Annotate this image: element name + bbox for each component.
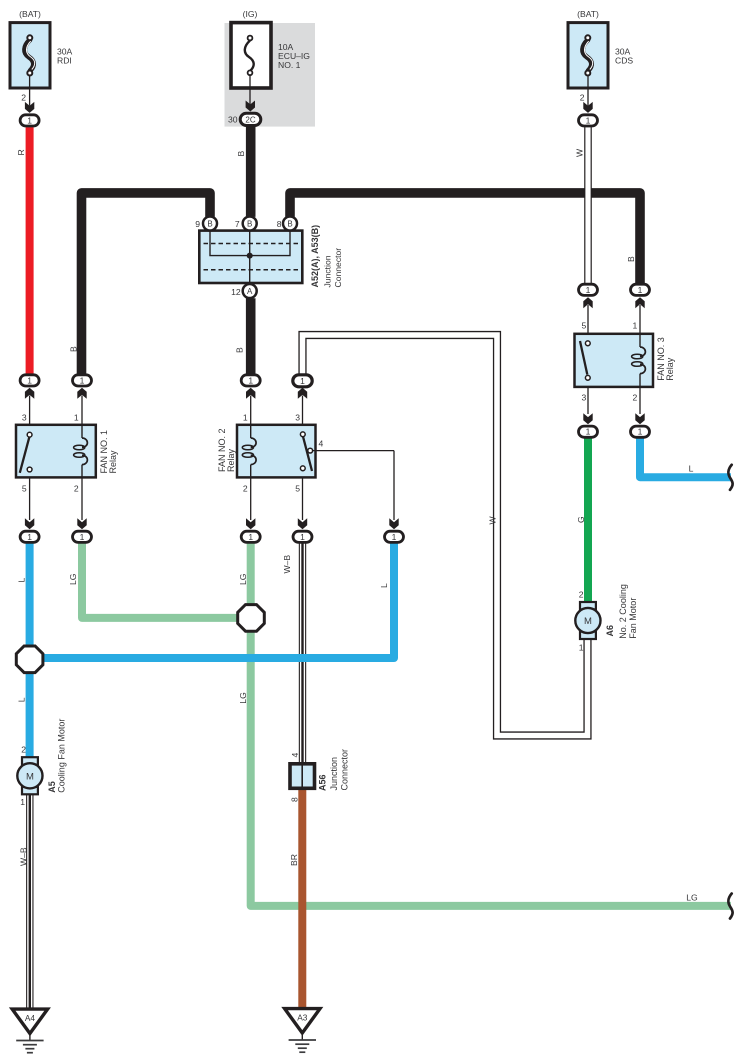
connector oval 1 below RDI fuse	[20, 115, 39, 126]
fuse element 10A ECU-IG	[245, 36, 254, 76]
svg-text:1: 1	[74, 413, 79, 423]
splice node: blue L wires junction (left)	[16, 646, 43, 673]
svg-text:B: B	[236, 151, 246, 157]
svg-text:B: B	[247, 219, 252, 228]
svg-text:2: 2	[74, 484, 79, 494]
svg-text:Relay: Relay	[108, 450, 118, 474]
svg-text:(BAT): (BAT)	[577, 9, 599, 19]
svg-text:Relay: Relay	[665, 357, 675, 381]
svg-text:W: W	[574, 148, 584, 157]
svg-text:L: L	[689, 464, 694, 474]
wire L: splice node down to cooling fan motor A5	[26, 669, 34, 758]
connector oval below relay2 pin 5	[293, 531, 312, 542]
wire B: junction pin 12(A) down to FAN NO.2 relay pin 1	[246, 298, 256, 374]
connector arrow relay1 pin1 side	[77, 388, 86, 399]
connector oval below relay2 pin 4	[385, 531, 404, 542]
svg-text:3: 3	[582, 393, 587, 403]
svg-text:Junction: Junction	[322, 255, 332, 287]
svg-text:B: B	[287, 219, 292, 228]
svg-text:A5: A5	[47, 781, 57, 793]
connector arrow into oval below relay1 pin5	[25, 518, 34, 529]
lead relay2 pin 5	[302, 477, 304, 520]
junction connector A52(A),A53(B) body	[199, 231, 302, 283]
fuse 30A RDI box	[10, 23, 50, 88]
svg-text:12: 12	[231, 287, 241, 297]
junction connector internal bus	[210, 231, 290, 283]
svg-text:(BAT): (BAT)	[19, 9, 41, 19]
lead: fuse RDI output pin 2	[29, 76, 31, 106]
connector oval above relay3 pin 1	[631, 284, 650, 295]
svg-text:A52(A), A53(B): A52(A), A53(B)	[310, 225, 320, 288]
svg-text:Connector: Connector	[333, 248, 343, 288]
svg-text:2: 2	[579, 590, 584, 600]
lead relay2 pin 3	[302, 396, 304, 425]
connector oval above relay1 pin 1	[73, 375, 92, 386]
svg-text:3: 3	[295, 413, 300, 423]
lead relay1 pin 2	[81, 477, 83, 520]
svg-text:1: 1	[392, 532, 397, 542]
wire L: FAN NO.3 relay pin 2 down and right to edge	[640, 438, 731, 478]
wire W-B: motor A5 down to ground A4	[26, 794, 33, 1010]
wire W-B: FAN NO.2 relay pin 5 down to junction connector A56	[299, 543, 306, 763]
svg-text:1: 1	[300, 376, 305, 386]
fuse 30A CDS box	[568, 23, 608, 88]
connector arrow into oval below relay3 pin3	[583, 413, 592, 424]
junction pin 12 (A)	[243, 284, 257, 298]
relay FAN NO.1 switch	[20, 432, 32, 472]
relay FAN NO.3 body	[575, 334, 654, 387]
splice node: LG wires junction (middle)	[238, 605, 265, 632]
wire LG: FAN NO.1 relay pin 2 down then right to splice node	[82, 543, 240, 618]
svg-text:1: 1	[586, 285, 591, 295]
connector oval below relay3 pin 3	[579, 426, 598, 437]
connector arrow into oval 1 (CDS)	[583, 102, 592, 113]
svg-text:2: 2	[21, 93, 26, 103]
lead relay1 pin 3	[29, 396, 31, 425]
svg-text:Cooling Fan Motor: Cooling Fan Motor	[56, 719, 66, 793]
connector arrow into oval 1 (RDI)	[25, 102, 34, 113]
wire: black bus from FAN NO.1 relay pin1 up and right to junction pin 9	[82, 193, 211, 375]
svg-text:1: 1	[248, 532, 253, 542]
svg-text:Fan Motor: Fan Motor	[628, 598, 638, 639]
connector oval below relay3 pin 2	[631, 426, 650, 437]
ground A3	[285, 1009, 320, 1053]
svg-text:7: 7	[235, 219, 240, 229]
svg-text:1: 1	[638, 427, 643, 437]
connector arrow into oval 2C	[246, 101, 255, 112]
svg-text:G: G	[576, 516, 586, 523]
lead relay2 pin 4 vertical	[393, 451, 395, 520]
wire LG: FAN NO.2 relay pin 2 down through splice, to right edge	[251, 543, 731, 906]
wire BR: junction connector A56 down to ground A3	[298, 790, 306, 1010]
connector arrow into oval below relay2 pin5	[298, 518, 307, 529]
svg-text:Junction: Junction	[329, 757, 339, 791]
svg-text:1: 1	[27, 375, 32, 385]
lead relay1 pin 1	[81, 396, 83, 425]
svg-text:1: 1	[638, 285, 643, 295]
lead: IG fuse output	[249, 76, 251, 105]
relay FAN NO.1 body	[16, 425, 96, 478]
svg-text:A3: A3	[297, 1013, 308, 1023]
svg-text:LG: LG	[238, 573, 248, 585]
svg-text:2: 2	[243, 484, 248, 494]
wire G: FAN NO.3 relay pin 3 down to No.2 cooling fan motor A6	[584, 438, 592, 603]
svg-text:1: 1	[586, 115, 591, 125]
connector arrow into oval below relay2 pin4	[389, 518, 398, 529]
wire: black bus from junction pin 8 right to FAN NO.3 relay pin 1 (B)	[290, 193, 640, 284]
svg-text:No. 2 Cooling: No. 2 Cooling	[618, 584, 628, 639]
svg-text:2: 2	[21, 745, 26, 755]
connector arrow into oval below relay2 pin2	[246, 518, 255, 529]
svg-text:2C: 2C	[245, 115, 255, 124]
wire R: RDI fuse to FAN NO.1 relay pin 3	[26, 127, 34, 374]
svg-text:LG: LG	[68, 573, 78, 585]
svg-text:1: 1	[248, 375, 253, 385]
fuse element 30A CDS	[583, 35, 593, 75]
svg-text:LG: LG	[238, 692, 248, 704]
junction internal node dot	[247, 253, 253, 259]
connector oval above relay1 pin 3	[20, 375, 39, 386]
connector arrow relay2 pin3 side	[298, 388, 307, 399]
connector oval below relay1 pin 2	[73, 531, 92, 542]
continuation squiggle LG wire	[728, 894, 732, 919]
svg-text:A6: A6	[605, 625, 615, 637]
svg-text:Relay: Relay	[226, 448, 236, 472]
junction pin 7 (B)	[243, 217, 257, 231]
svg-text:A56: A56	[317, 774, 327, 791]
lead relay2 pin 2	[250, 477, 252, 520]
svg-text:1: 1	[243, 413, 248, 423]
svg-text:1: 1	[633, 321, 638, 331]
relay FAN NO.1 coil	[74, 425, 88, 478]
svg-text:A: A	[247, 287, 253, 296]
connector arrow relay3 pin5 side	[583, 297, 592, 308]
svg-text:L: L	[16, 697, 26, 702]
svg-text:2: 2	[633, 393, 638, 403]
connector oval above relay2 pin 1	[241, 375, 260, 386]
svg-text:4: 4	[319, 438, 324, 448]
lead relay1 pin 5	[29, 477, 31, 520]
junction connector A56 body	[290, 764, 315, 789]
relay FAN NO.3 switch	[580, 341, 590, 380]
svg-text:NO. 1: NO. 1	[278, 60, 301, 70]
connector arrow into oval below relay3 pin2	[635, 413, 644, 424]
svg-text:B: B	[68, 346, 78, 352]
continuation squiggle blue L wire	[728, 465, 732, 490]
svg-text:W–B: W–B	[18, 847, 28, 866]
svg-text:L: L	[379, 583, 389, 588]
lead relay3 pin 2	[639, 387, 641, 414]
relay FAN NO.2 coil	[242, 425, 256, 478]
fuse 10A ECU-IG NO.1 box	[231, 23, 271, 88]
IG fuse gray background panel	[225, 23, 316, 127]
cooling fan motor A5	[17, 757, 42, 794]
svg-text:5: 5	[295, 484, 300, 494]
svg-text:8: 8	[289, 797, 299, 802]
lead relay2 pin 4 horizontal	[313, 450, 394, 452]
junction pin 8 (B)	[283, 217, 297, 231]
relay FAN NO.2 switch	[300, 432, 312, 471]
svg-text:1: 1	[80, 375, 85, 385]
connector oval above relay2 pin 3	[293, 375, 312, 387]
svg-text:R: R	[16, 149, 26, 155]
wire L: FAN NO.2 relay pin 4 down and left to splice node	[30, 543, 394, 658]
connector arrow into oval below relay1 pin2	[77, 518, 86, 529]
wire W: FAN NO.2 relay pin 3 up, right, down and to motor A6 low side	[303, 335, 588, 736]
svg-text:1: 1	[80, 532, 85, 542]
svg-text:LG: LG	[686, 893, 698, 903]
junction pin 9 (B)	[203, 217, 217, 231]
svg-text:W–B: W–B	[282, 555, 292, 574]
svg-text:M: M	[584, 616, 592, 627]
No.2 cooling fan motor A6	[575, 602, 600, 639]
svg-text:4: 4	[290, 753, 300, 758]
lead relay3 pin 3	[587, 387, 589, 414]
connector oval 2C	[240, 113, 261, 125]
svg-text:A4: A4	[25, 1013, 36, 1023]
svg-text:RDI: RDI	[57, 56, 72, 66]
svg-text:2: 2	[580, 93, 585, 103]
svg-text:B: B	[626, 256, 636, 262]
connector oval above relay3 pin 5	[579, 284, 598, 295]
svg-text:CDS: CDS	[615, 56, 633, 66]
svg-text:1: 1	[586, 427, 591, 437]
svg-text:1: 1	[27, 532, 32, 542]
junction connector internal dashed rows	[204, 244, 299, 270]
svg-text:(IG): (IG)	[243, 9, 258, 19]
svg-text:30: 30	[228, 115, 238, 125]
connector oval below relay1 pin 5	[20, 531, 39, 542]
relay FAN NO.2 body	[237, 425, 316, 478]
svg-text:L: L	[16, 578, 26, 583]
connector arrow relay2 pin1 side	[246, 388, 255, 399]
svg-text:BR: BR	[289, 854, 299, 866]
connector oval below relay2 pin 2	[241, 531, 260, 542]
svg-text:B: B	[207, 219, 212, 228]
svg-text:5: 5	[582, 321, 587, 331]
svg-text:3: 3	[22, 413, 27, 423]
fuse element 30A RDI	[25, 35, 35, 75]
connector arrow relay3 pin1 side	[635, 297, 644, 308]
svg-text:B: B	[234, 347, 244, 353]
svg-text:W: W	[487, 516, 497, 525]
ground A4	[12, 1009, 47, 1053]
relay FAN NO.3 coil	[632, 334, 646, 387]
svg-text:8: 8	[277, 219, 282, 229]
svg-text:Connector: Connector	[339, 749, 349, 791]
lead: CDS fuse output pin 2	[587, 76, 589, 106]
lead relay3 pin 5	[587, 305, 589, 334]
wire W: CDS fuse down to FAN NO.3 relay pin 5, crossing black bus	[584, 127, 592, 283]
wire B: ECU-IG fuse 2C down to junction pin 7	[246, 127, 256, 217]
lead relay3 pin 1	[639, 305, 641, 334]
connector arrow relay1 pin3 side	[25, 388, 34, 399]
connector oval 1 below CDS fuse	[579, 115, 598, 126]
svg-text:M: M	[26, 771, 34, 782]
svg-text:1: 1	[20, 797, 25, 807]
svg-text:5: 5	[22, 484, 27, 494]
svg-text:1: 1	[300, 532, 305, 542]
svg-text:1: 1	[579, 643, 584, 653]
svg-text:9: 9	[195, 219, 200, 229]
wire L: FAN NO.1 relay pin 5 down to splice node	[26, 543, 34, 650]
lead relay2 pin 1	[250, 396, 252, 425]
svg-text:1: 1	[27, 115, 32, 125]
